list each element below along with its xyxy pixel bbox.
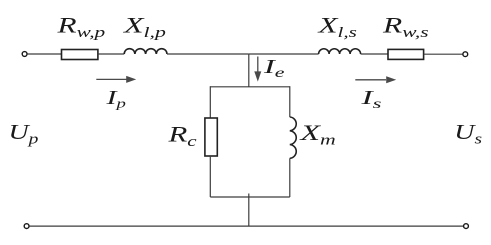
wire right shunt upper [289,86,291,117]
wire shunt top rail [210,86,289,88]
terminal bottom-left [24,224,29,229]
inductor X_l,s [319,49,361,54]
terminal top-left [22,52,27,57]
terminal top-right [463,52,468,57]
inductor X_m [290,117,296,158]
wire shunt to bottom rail [248,194,250,227]
wire R_w,p to X_l,p [98,53,124,55]
label X_l,s [317,13,356,40]
wire shunt bottom rail [210,196,289,198]
terminal bottom-right [464,224,469,229]
arrow I_e [254,57,261,82]
label X_l,p [123,13,166,41]
resistor R_c [205,118,217,156]
wire left shunt lower [209,156,211,197]
label U_s [454,121,482,147]
label I_s [360,86,381,112]
resistor R_w,s [388,49,424,59]
arrow I_s [355,76,396,83]
label U_p [9,121,39,147]
wire X_l,s to R_w,s [361,53,388,55]
wire R_w,s to top-right terminal [424,53,463,55]
label I_e [263,55,285,80]
wire node A down to shunt branch [248,54,250,87]
resistor R_w,p [62,50,98,60]
wire top-left to R_w,p [27,53,61,55]
label X_m [299,121,335,149]
wire right shunt lower [289,158,291,197]
wire X_l,p to node A [167,53,249,55]
wire bottom rail [29,225,463,227]
arrow I_p [96,76,136,83]
label I_p [105,86,126,111]
inductor X_l,p [124,49,167,54]
label R_w,s [382,13,429,41]
label R_c [167,122,196,150]
wire node A to X_l,s [249,53,319,55]
wire left shunt upper [209,86,211,118]
label R_w,p [56,13,105,40]
